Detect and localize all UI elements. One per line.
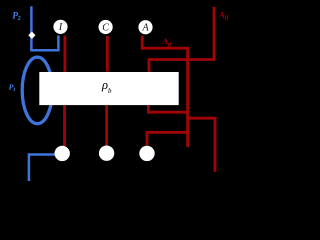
node b2 (bottom circle): [99, 146, 114, 161]
wire red AH vertical and to box top: [149, 7, 214, 72]
svg-text:I: I: [58, 22, 63, 33]
svg-text:A: A: [141, 23, 149, 34]
wire red box bottom to circle b1: [63, 105, 66, 146]
wire red node C to box top: [106, 36, 109, 72]
svg-text:C: C: [102, 22, 109, 33]
diamond (white decision marker on P2 wire): [28, 32, 35, 39]
wire red box bottom to circle b2: [105, 105, 108, 146]
box rho_b (white rectangle): [39, 72, 178, 105]
wire blue from P2 down to node I: [31, 6, 58, 50]
node I (top circle): [53, 20, 67, 34]
node b1 (bottom circle): [55, 146, 70, 161]
wire blue circle b1 left and down: [29, 155, 55, 182]
wire red node A right and down (V1): [142, 36, 187, 147]
wire red node I to box top: [64, 36, 67, 72]
wire red circle b3 stub to V1 (H2): [147, 132, 189, 145]
wire red V1 to V2 down (H3+V2): [188, 118, 215, 172]
ellipse P1 (blue oval, right part hidden by box): [22, 57, 52, 124]
node C (top circle): [99, 20, 113, 34]
node A (top circle): [138, 20, 152, 34]
wire red box bottom stub to V1 (H1): [148, 105, 187, 112]
node b3 (bottom circle): [139, 146, 154, 161]
